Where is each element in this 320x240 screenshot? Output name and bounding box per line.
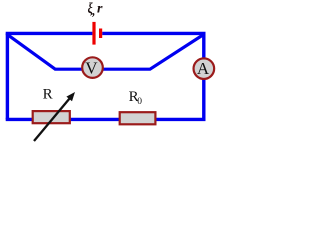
wire: top left segment (to battery) — [6, 32, 93, 35]
rheostat arrow — [34, 97, 71, 141]
svg-text:A: A — [197, 59, 210, 78]
svg-text:r: r — [97, 2, 103, 17]
battery cell: long plate — [92, 22, 95, 45]
wire: top right segment (from battery) — [102, 32, 205, 35]
resistor R (rheostat) body — [33, 111, 70, 123]
svg-text:,: , — [91, 3, 95, 18]
label ξ, r (battery emf and internal resistance) — [88, 0, 93, 16]
voltmeter V: circle — [82, 57, 103, 78]
svg-text:R: R — [43, 87, 53, 103]
wire: bottom horizontal — [6, 118, 206, 121]
wire: voltmeter branch (diagonal-horizontal-diagonal) — [7, 34, 203, 69]
resistor R0 body — [120, 112, 156, 124]
battery cell: short plate — [99, 29, 102, 39]
svg-text:0: 0 — [137, 97, 142, 107]
ammeter: circle — [194, 58, 215, 79]
wire: left vertical — [6, 33, 9, 119]
svg-text:V: V — [85, 58, 98, 77]
wire: right vertical — [202, 33, 205, 119]
